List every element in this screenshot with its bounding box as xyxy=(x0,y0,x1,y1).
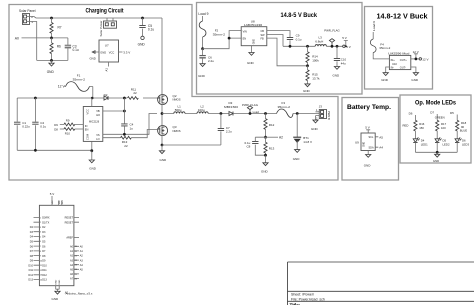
svg-text:D6: D6 xyxy=(42,245,46,248)
svg-text:A5: A5 xyxy=(379,135,383,139)
svg-text:A1: A1 xyxy=(70,250,74,253)
svg-text:R7: R7 xyxy=(58,26,62,30)
arduino left digital pins xyxy=(28,217,49,282)
svg-text:14.8-5 V Buck: 14.8-5 V Buck xyxy=(281,12,318,19)
node R12 tap xyxy=(264,112,267,115)
wire driver ground rail xyxy=(17,149,92,151)
svg-text:HO: HO xyxy=(96,113,100,117)
ground below U10 OUT- xyxy=(411,67,419,82)
svg-text:D9: D9 xyxy=(42,260,46,263)
resistor R11 xyxy=(128,87,139,99)
svg-text:A7: A7 xyxy=(70,278,74,281)
power flag charger xyxy=(242,103,259,115)
svg-text:GND: GND xyxy=(254,39,256,44)
ground below LEDs xyxy=(433,152,440,163)
wire A0 to divider top xyxy=(22,37,68,39)
svg-text:D2: D2 xyxy=(30,226,34,229)
svg-text:D2: D2 xyxy=(42,226,46,229)
power port 5V xyxy=(342,36,348,47)
node VCC junction xyxy=(91,97,94,100)
wire divider bottom loop xyxy=(37,59,68,61)
transistor Q2 xyxy=(157,94,181,105)
svg-text:D1/TX: D1/TX xyxy=(42,221,49,224)
svg-text:Arduino_Nano_v3.x: Arduino_Nano_v3.x xyxy=(65,291,93,295)
connector J1 Solar Panel xyxy=(19,9,36,25)
svg-text:D8: D8 xyxy=(54,127,58,131)
svg-text:VCC: VCC xyxy=(109,50,115,54)
capacitor C1 xyxy=(14,98,30,150)
node rail-R7 junction xyxy=(50,17,53,20)
node VB junction xyxy=(123,110,126,113)
svg-text:VIN: VIN xyxy=(59,200,61,204)
capacitor C2 xyxy=(32,98,46,150)
capacitor C10 xyxy=(334,46,347,66)
svg-text:150: 150 xyxy=(419,126,424,130)
svg-text:LMR51430: LMR51430 xyxy=(244,23,263,27)
svg-text:SW: SW xyxy=(261,34,266,37)
capacitor C3 xyxy=(65,38,79,61)
svg-text:35mm-2: 35mm-2 xyxy=(278,105,291,109)
fuse F4 xyxy=(370,32,390,56)
svg-text:AREF: AREF xyxy=(66,237,73,240)
node C7 tap xyxy=(220,112,223,115)
svg-text:A1: A1 xyxy=(105,68,109,72)
wire power-stage ground rail xyxy=(162,144,221,146)
svg-text:GND: GND xyxy=(89,166,97,170)
14.8-12V buck section box xyxy=(365,7,433,90)
svg-text:LED1: LED1 xyxy=(421,142,428,146)
inductor L3 xyxy=(315,35,326,46)
resistor R13 divider xyxy=(264,137,275,155)
svg-text:PWR_FLAG: PWR_FLAG xyxy=(324,29,340,33)
node R6 top junction xyxy=(50,37,53,40)
node driver COM junction xyxy=(90,149,93,152)
ground below C6 xyxy=(198,64,206,78)
ground below C10 xyxy=(333,67,341,78)
svg-text:D10: D10 xyxy=(28,264,33,267)
svg-text:U9: U9 xyxy=(355,141,359,145)
svg-text:RED: RED xyxy=(403,123,409,127)
node switch midpoint xyxy=(161,112,164,115)
svg-text:0.1u: 0.1u xyxy=(296,37,302,41)
svg-text:12 V: 12 V xyxy=(58,85,66,89)
node C10 tap xyxy=(336,45,339,48)
svg-text:MBF1560: MBF1560 xyxy=(224,105,238,109)
wire solar pin2 to top rail xyxy=(27,17,163,19)
svg-text:OUT-: OUT- xyxy=(400,66,406,70)
transistor Q3 xyxy=(157,125,181,136)
sensor U9 xyxy=(355,133,378,155)
output pin 12V xyxy=(411,57,429,61)
resistor R9 xyxy=(60,118,84,126)
svg-text:Sheet: /Power/: Sheet: /Power/ xyxy=(291,292,314,296)
svg-text:Q3: Q3 xyxy=(173,125,177,129)
svg-text:EN: EN xyxy=(85,127,89,131)
ground below driver xyxy=(89,151,97,171)
svg-text:100u: 100u xyxy=(198,108,205,112)
ground below U8 xyxy=(247,53,255,66)
svg-text:Q2: Q2 xyxy=(173,94,177,98)
battery temp section box xyxy=(342,98,399,181)
svg-text:GND: GND xyxy=(381,78,389,82)
svg-text:D6: D6 xyxy=(30,245,34,248)
capacitor C4 bootstrap xyxy=(121,98,133,134)
svg-text:Charging Circuit: Charging Circuit xyxy=(86,7,125,14)
wire LED common rail xyxy=(415,151,457,153)
svg-text:3.3 V: 3.3 V xyxy=(123,51,130,55)
resistor R18 xyxy=(456,120,468,139)
svg-text:A5: A5 xyxy=(70,269,74,272)
ground below U10 IN- xyxy=(381,67,389,82)
svg-text:D5: D5 xyxy=(42,241,46,244)
svg-text:VB: VB xyxy=(96,109,100,113)
svg-text:GND: GND xyxy=(303,89,311,93)
svg-text:100: 100 xyxy=(441,126,446,130)
svg-text:2.2u: 2.2u xyxy=(226,130,232,134)
svg-text:13.7k: 13.7k xyxy=(312,76,320,80)
svg-text:22: 22 xyxy=(133,91,137,95)
resistor R6 xyxy=(50,38,61,61)
svg-text:D11: D11 xyxy=(29,269,34,272)
svg-text:A0: A0 xyxy=(15,36,19,40)
svg-text:LM2596 Mod: LM2596 Mod xyxy=(388,51,410,55)
svg-text:D5: D5 xyxy=(450,111,454,115)
node VS-C4 junction xyxy=(123,133,126,136)
svg-text:22: 22 xyxy=(124,144,128,148)
inductor L2 xyxy=(197,104,229,113)
svg-text:LED2: LED2 xyxy=(443,142,450,146)
svg-text:GND: GND xyxy=(364,163,372,167)
ground below battery xyxy=(293,150,301,161)
svg-text:A5: A5 xyxy=(80,269,84,272)
node LED ground junction xyxy=(436,151,439,154)
svg-text:GND: GND xyxy=(59,279,61,284)
power port 5V arduino xyxy=(50,192,55,205)
capacitor C6 xyxy=(199,49,214,64)
svg-text:Load: Load xyxy=(253,110,260,114)
svg-text:VCC: VCC xyxy=(85,109,89,115)
power port 12V xyxy=(413,50,419,59)
ground below J3 xyxy=(311,116,319,131)
svg-text:GND: GND xyxy=(160,158,168,162)
node C2 tap xyxy=(34,97,37,100)
node battery junction xyxy=(296,112,299,115)
svg-text:D0/RX: D0/RX xyxy=(42,217,50,220)
svg-text:A1: A1 xyxy=(80,250,84,253)
svg-text:1u: 1u xyxy=(130,126,134,130)
arduino VIN 3V3 top pins xyxy=(59,200,64,206)
svg-text:12 V: 12 V xyxy=(413,50,419,54)
svg-text:14.8 V: 14.8 V xyxy=(303,140,312,144)
module U10 xyxy=(373,51,411,69)
wire fuse down to VCC rail xyxy=(92,87,94,99)
svg-text:EN: EN xyxy=(243,38,247,41)
svg-text:44u: 44u xyxy=(341,61,346,65)
wire VS to switch node xyxy=(103,114,157,135)
svg-text:2: 2 xyxy=(31,15,33,19)
svg-text:Load 9: Load 9 xyxy=(198,12,208,16)
node divider bottom junction xyxy=(264,154,267,157)
node EN tap xyxy=(228,37,231,40)
svg-text:NMOS: NMOS xyxy=(173,98,181,102)
svg-text:A2: A2 xyxy=(65,291,69,295)
svg-text:Solar Power: Solar Power xyxy=(99,21,103,37)
svg-text:R13: R13 xyxy=(269,146,275,150)
fuse F2 xyxy=(199,16,225,49)
svg-text:NMOS: NMOS xyxy=(173,129,181,133)
wire SW to output rail xyxy=(267,35,343,47)
svg-text:14.8-12 V Buck: 14.8-12 V Buck xyxy=(377,13,428,20)
svg-text:OUT+: OUT+ xyxy=(400,58,407,62)
node Q3 source junction xyxy=(161,144,164,147)
svg-text:D4: D4 xyxy=(30,236,34,239)
svg-text:0.22u: 0.22u xyxy=(22,125,30,129)
capacitor C9 bootstrap xyxy=(267,31,302,47)
diode D3 xyxy=(224,101,277,115)
wire buck input riser xyxy=(203,31,242,49)
wire control rail xyxy=(17,97,157,99)
svg-text:R10: R10 xyxy=(65,132,71,136)
svg-text:Battery Temp.: Battery Temp. xyxy=(347,104,391,111)
ground below C5 (circle style) xyxy=(138,36,146,47)
capacitor C7 xyxy=(218,114,232,146)
svg-text:GND: GND xyxy=(56,279,58,284)
svg-text:Load 9: Load 9 xyxy=(372,21,376,31)
node R6 bottom junction xyxy=(50,59,53,62)
svg-text:6.8uH: 6.8uH xyxy=(315,39,323,43)
svg-text:BLUE: BLUE xyxy=(460,129,467,133)
svg-text:A3: A3 xyxy=(70,259,74,262)
svg-text:Solar Panel: Solar Panel xyxy=(19,9,36,13)
svg-text:D10: D10 xyxy=(42,264,47,267)
ground below R15 xyxy=(303,84,311,93)
battery BT1 xyxy=(293,114,312,150)
output pin 5V xyxy=(343,45,351,49)
svg-text:File: Power.kicad_sch: File: Power.kicad_sch xyxy=(291,297,325,301)
svg-text:R12: R12 xyxy=(269,123,275,127)
svg-text:GND: GND xyxy=(333,73,341,77)
net label D6 (LED red) xyxy=(409,111,416,120)
14.8-5V buck section box xyxy=(197,3,363,95)
arduino analog pins xyxy=(70,246,83,281)
svg-text:GND: GND xyxy=(261,169,269,173)
resistor R13 gate Q3 xyxy=(103,130,157,149)
svg-text:A2: A2 xyxy=(80,255,84,258)
svg-text:35mm-2: 35mm-2 xyxy=(73,77,86,81)
svg-text:GND: GND xyxy=(47,70,55,74)
svg-text:D3: D3 xyxy=(30,231,34,234)
svg-text:D7: D7 xyxy=(42,250,46,253)
ground below divider xyxy=(47,60,55,73)
net label D7 (LED green) xyxy=(430,110,444,120)
node FB junction xyxy=(306,64,309,67)
resistor R7 xyxy=(50,18,62,38)
svg-text:2.2u: 2.2u xyxy=(208,59,214,63)
svg-text:D8: D8 xyxy=(42,255,46,258)
capacitor C8 xyxy=(245,137,266,155)
connector J3 xyxy=(316,105,332,121)
svg-text:35mm-2: 35mm-2 xyxy=(213,33,226,37)
svg-text:RESET: RESET xyxy=(65,217,74,220)
regulator U8 xyxy=(241,19,267,52)
svg-text:IN: IN xyxy=(85,124,88,128)
svg-text:D13: D13 xyxy=(28,279,33,282)
resistor R17 xyxy=(436,120,447,139)
regulator U7 xyxy=(90,40,131,72)
arduino right reset pins xyxy=(65,217,79,225)
resistor R14 xyxy=(306,46,319,66)
wire solar pin1 down to divider loop xyxy=(27,22,37,61)
svg-text:D12: D12 xyxy=(42,274,47,277)
svg-text:C8: C8 xyxy=(247,145,251,149)
svg-text:560u: 560u xyxy=(175,108,182,112)
svg-text:35mm-2: 35mm-2 xyxy=(379,46,390,50)
svg-text:D8: D8 xyxy=(30,255,34,258)
module A1 Arduino Nano xyxy=(39,205,93,295)
svg-text:RESET: RESET xyxy=(65,221,74,224)
svg-text:A3: A3 xyxy=(80,259,84,262)
svg-text:1: 1 xyxy=(31,20,33,24)
svg-text:+5V: +5V xyxy=(52,200,54,204)
LED D4 xyxy=(413,137,428,152)
connector J2 Solar Power xyxy=(99,18,117,37)
svg-text:COM: COM xyxy=(85,134,89,140)
resistor R16 xyxy=(403,120,425,139)
charging circuit section box xyxy=(9,5,338,181)
ground below divider R13 xyxy=(261,155,269,173)
svg-text:A6: A6 xyxy=(70,273,74,276)
svg-text:SCL: SCL xyxy=(369,136,374,139)
svg-text:J3: J3 xyxy=(319,105,323,109)
svg-text:R9: R9 xyxy=(66,118,70,122)
wire Q3 source down xyxy=(161,136,163,146)
svg-text:100k: 100k xyxy=(312,58,319,62)
fuse F3 xyxy=(277,101,320,118)
svg-text:D2: D2 xyxy=(104,93,108,97)
svg-text:D3: D3 xyxy=(42,231,46,234)
svg-text:D4: D4 xyxy=(42,236,46,239)
svg-text:D9: D9 xyxy=(30,260,34,263)
svg-text:A4: A4 xyxy=(379,146,383,150)
svg-text:FB: FB xyxy=(261,38,265,41)
svg-text:VS: VS xyxy=(96,133,100,137)
svg-text:D12: D12 xyxy=(28,274,33,277)
svg-text:GND: GND xyxy=(247,61,255,65)
svg-text:5 V: 5 V xyxy=(50,192,55,196)
svg-text:12 V: 12 V xyxy=(422,57,428,61)
svg-text:5 V: 5 V xyxy=(342,36,347,40)
svg-text:D11: D11 xyxy=(42,269,47,272)
svg-text:A2: A2 xyxy=(279,136,283,140)
wire top rail drop to Q2 drain xyxy=(161,18,163,95)
LED D5 xyxy=(435,137,450,152)
svg-text:GND: GND xyxy=(411,78,419,82)
svg-text:D6: D6 xyxy=(409,111,413,115)
svg-text:GND: GND xyxy=(52,297,60,301)
svg-text:0.1u: 0.1u xyxy=(73,48,79,52)
ground below arduino xyxy=(52,291,61,301)
svg-text:GND: GND xyxy=(138,43,146,47)
svg-text:MIC2126: MIC2126 xyxy=(89,121,100,124)
svg-text:VIN: VIN xyxy=(243,30,247,33)
inductor L1 xyxy=(162,104,197,113)
power flag 5V xyxy=(324,29,340,48)
svg-text:5 V: 5 V xyxy=(365,126,370,130)
svg-text:GND: GND xyxy=(433,159,439,163)
ground below U9 xyxy=(364,155,372,168)
svg-text:3V3: 3V3 xyxy=(62,200,64,205)
svg-text:IN-: IN- xyxy=(391,66,395,70)
svg-text:GND: GND xyxy=(90,57,96,61)
svg-text:D7: D7 xyxy=(430,110,434,114)
svg-text:PWR B: PWR B xyxy=(327,111,331,120)
svg-text:A0: A0 xyxy=(80,246,84,249)
node bootstrap tap xyxy=(123,97,126,100)
resistor R12 xyxy=(264,114,275,138)
svg-text:A0: A0 xyxy=(70,246,74,249)
title block frame xyxy=(288,262,474,305)
svg-text:A4: A4 xyxy=(70,264,74,267)
capacitor C5 xyxy=(139,17,154,37)
svg-text:0.1u: 0.1u xyxy=(40,125,46,129)
svg-text:GND: GND xyxy=(311,127,319,131)
op mode leds section box xyxy=(400,95,471,163)
svg-text:IN+: IN+ xyxy=(391,58,396,62)
svg-text:GND: GND xyxy=(293,157,301,161)
arduino bottom gnd pins xyxy=(56,279,69,294)
svg-text:D7: D7 xyxy=(30,250,34,253)
svg-text:D13: D13 xyxy=(42,279,47,282)
svg-text:CB: CB xyxy=(261,30,265,33)
node R14 tap xyxy=(306,45,309,48)
svg-text:0.1u: 0.1u xyxy=(148,28,154,32)
power port 5V battery temp xyxy=(365,126,370,134)
svg-text:5 V: 5 V xyxy=(346,45,351,49)
wire VB to bootstrap xyxy=(103,110,125,112)
arduino aref pin xyxy=(66,237,79,240)
svg-text:R6: R6 xyxy=(57,45,61,49)
svg-text:SDA: SDA xyxy=(369,146,374,149)
svg-text:A2: A2 xyxy=(70,255,74,258)
svg-text:U10: U10 xyxy=(392,62,397,66)
svg-text:GND: GND xyxy=(364,142,366,147)
gate driver U5 xyxy=(83,98,103,151)
svg-text:GND: GND xyxy=(100,50,106,54)
svg-text:LED3: LED3 xyxy=(462,142,469,146)
svg-text:GREEN: GREEN xyxy=(435,116,445,120)
svg-text:Op. Mode LEDs: Op. Mode LEDs xyxy=(415,101,457,107)
LED D6 xyxy=(455,137,469,152)
svg-text:D5: D5 xyxy=(30,241,34,244)
wire FB to divider xyxy=(267,38,308,66)
svg-text:U7: U7 xyxy=(105,43,109,47)
ground below Q3 xyxy=(159,145,167,162)
net label A2 xyxy=(266,136,284,140)
node A2 tap xyxy=(264,136,267,139)
svg-text:A4: A4 xyxy=(80,264,84,267)
node buck input junction xyxy=(201,47,204,50)
svg-text:LO: LO xyxy=(96,137,99,141)
net label D5 (LED blue) xyxy=(450,111,457,120)
svg-text:GND: GND xyxy=(198,74,206,78)
wire Q2 source to Q3 drain xyxy=(161,105,163,126)
node C2 bottom junction xyxy=(34,149,37,152)
resistor R15 xyxy=(306,66,320,84)
node C9 bottom junction xyxy=(289,45,292,48)
resistor R10 xyxy=(60,128,84,136)
diode D2 xyxy=(104,93,108,100)
fuse F1 xyxy=(65,73,93,91)
